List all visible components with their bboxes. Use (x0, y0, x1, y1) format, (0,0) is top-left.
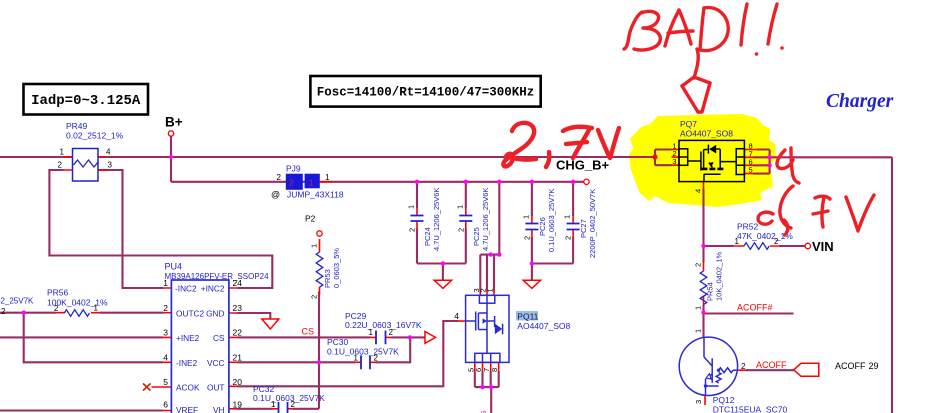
svg-text:Charger: Charger (826, 91, 894, 112)
svg-text:3: 3 (672, 157, 676, 166)
svg-text:0.22U_0603_16V7K: 0.22U_0603_16V7K (345, 320, 422, 330)
svg-text:1: 1 (309, 179, 314, 188)
svg-text:VREF: VREF (176, 405, 198, 413)
svg-text:Iadp=0~3.125A: Iadp=0~3.125A (31, 93, 141, 109)
svg-text:2: 2 (310, 295, 319, 299)
svg-text:1: 1 (563, 215, 572, 219)
svg-text:23: 23 (233, 303, 243, 313)
svg-text:MB39A126PFV-ER_SSOP24: MB39A126PFV-ER_SSOP24 (165, 272, 270, 281)
svg-text:0.1U_0603_25V7K: 0.1U_0603_25V7K (253, 393, 325, 403)
svg-text:PC27: PC27 (579, 219, 588, 238)
svg-text:JUMP_43X118: JUMP_43X118 (287, 190, 344, 200)
svg-text:0.1U_0603_25V7K: 0.1U_0603_25V7K (547, 189, 556, 252)
svg-text:ACOK: ACOK (176, 383, 200, 393)
svg-text:0.02_2512_1%: 0.02_2512_1% (66, 131, 124, 141)
svg-text:1: 1 (60, 148, 65, 157)
svg-text:GND: GND (206, 308, 224, 318)
svg-text:2: 2 (774, 237, 779, 246)
svg-text:2: 2 (54, 304, 59, 313)
svg-text:2: 2 (277, 173, 282, 182)
svg-text:PC24: PC24 (423, 227, 432, 246)
svg-text:PR52: PR52 (737, 222, 759, 232)
svg-text:1: 1 (407, 205, 416, 209)
svg-text:2: 2 (58, 161, 63, 170)
svg-text:PR54: PR54 (706, 282, 715, 301)
svg-text:2: 2 (564, 236, 573, 240)
svg-text:PC30: PC30 (327, 337, 349, 347)
svg-text:2: 2 (374, 353, 379, 362)
svg-text:4.7U_1206_25V6K: 4.7U_1206_25V6K (432, 188, 441, 251)
svg-text:3: 3 (163, 328, 168, 338)
svg-text:1: 1 (163, 278, 168, 288)
svg-text:PU4: PU4 (165, 262, 183, 272)
svg-text:6: 6 (163, 400, 168, 410)
svg-text:PC25: PC25 (472, 227, 481, 246)
svg-text:AO4407_SO8: AO4407_SO8 (517, 321, 570, 331)
svg-text:1: 1 (310, 244, 319, 248)
svg-text:VH: VH (213, 405, 225, 413)
svg-text:1: 1 (271, 400, 276, 409)
svg-text:ACOFF#: ACOFF# (737, 303, 773, 313)
svg-text:PQ11: PQ11 (517, 312, 538, 322)
svg-text:PR53: PR53 (323, 269, 332, 288)
svg-text:1: 1 (694, 329, 703, 333)
svg-text:2200P_0402_50V7K: 2200P_0402_50V7K (588, 189, 597, 258)
svg-text:10K_0402_1%: 10K_0402_1% (715, 251, 724, 301)
svg-text:2: 2 (522, 236, 531, 240)
svg-text:OUTC2: OUTC2 (176, 308, 205, 318)
svg-text:CHG_B+: CHG_B+ (556, 158, 610, 173)
svg-text:0_0603_5%: 0_0603_5% (332, 248, 341, 288)
svg-text:22: 22 (233, 328, 243, 338)
svg-text:1: 1 (694, 306, 703, 310)
svg-text:+INC2: +INC2 (201, 284, 225, 294)
svg-text:5: 5 (163, 377, 168, 387)
svg-text:21: 21 (233, 352, 243, 362)
svg-text:VIN: VIN (812, 239, 834, 254)
svg-text:1: 1 (455, 205, 464, 209)
svg-text:DTC115EUA_SC70: DTC115EUA_SC70 (713, 405, 788, 413)
svg-text:19: 19 (233, 400, 243, 410)
svg-text:2: 2 (408, 228, 417, 232)
svg-text:02_25V7K: 02_25V7K (0, 297, 34, 306)
svg-text:24: 24 (233, 278, 243, 288)
svg-text:PR49: PR49 (66, 121, 88, 131)
svg-text:2: 2 (163, 303, 168, 313)
svg-text:2: 2 (1, 307, 6, 316)
svg-text:2: 2 (694, 263, 703, 267)
svg-text:2: 2 (741, 362, 746, 371)
svg-text:3: 3 (108, 161, 113, 170)
svg-text:-INC2: -INC2 (175, 284, 197, 294)
svg-text:CS: CS (213, 333, 225, 343)
svg-text:PJ9: PJ9 (286, 164, 301, 174)
svg-text:20: 20 (233, 377, 243, 387)
svg-text:1: 1 (735, 237, 740, 246)
svg-text:0.1U_0603_25V7K: 0.1U_0603_25V7K (327, 347, 399, 357)
svg-text:2: 2 (289, 179, 294, 188)
svg-text:1: 1 (325, 173, 330, 182)
svg-text:AO4407_SO8: AO4407_SO8 (680, 129, 733, 139)
svg-text:4: 4 (106, 148, 111, 157)
svg-text:8: 8 (490, 368, 499, 372)
svg-text:4: 4 (163, 352, 168, 362)
svg-text:PC26: PC26 (538, 217, 547, 236)
svg-text:4.7U_1206_25V6K: 4.7U_1206_25V6K (481, 188, 490, 251)
svg-text:CS: CS (302, 327, 315, 337)
svg-text:-INE2: -INE2 (176, 358, 198, 368)
svg-text:PQ12: PQ12 (713, 395, 735, 405)
svg-text:1: 1 (369, 328, 374, 337)
svg-text:2: 2 (291, 400, 296, 409)
svg-text:2: 2 (456, 228, 465, 232)
svg-text:PR56: PR56 (47, 288, 69, 298)
svg-text:1: 1 (354, 353, 359, 362)
svg-text:ACOFF: ACOFF (835, 361, 866, 371)
svg-text:B+: B+ (165, 115, 183, 130)
svg-text:OUT: OUT (207, 383, 225, 393)
svg-text:3: 3 (694, 400, 703, 404)
svg-text:29: 29 (869, 361, 879, 371)
svg-text:4: 4 (454, 311, 459, 321)
svg-text:1: 1 (486, 288, 495, 292)
svg-text:1: 1 (521, 215, 530, 219)
svg-text:1: 1 (94, 304, 99, 313)
svg-text:5: 5 (749, 166, 753, 175)
svg-text:VCC: VCC (207, 358, 225, 368)
svg-text:P2: P2 (305, 214, 316, 224)
svg-text:4: 4 (694, 189, 703, 193)
svg-text:2: 2 (389, 328, 394, 337)
svg-text:PQ7: PQ7 (680, 119, 697, 129)
svg-text:ACOFF: ACOFF (756, 360, 787, 370)
svg-text:+INE2: +INE2 (176, 333, 200, 343)
svg-text:@: @ (271, 190, 280, 200)
svg-text:Fosc=14100/Rt=14100/47=300KHz: Fosc=14100/Rt=14100/47=300KHz (317, 86, 535, 100)
